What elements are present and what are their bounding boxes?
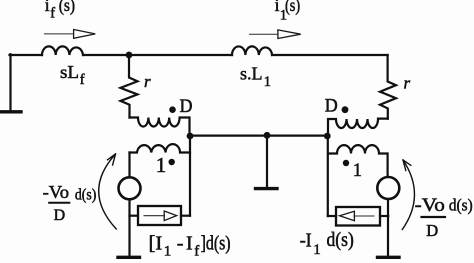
label -Vo/D d(s) (left) [43, 182, 97, 224]
label -I1 d(s) [300, 229, 354, 258]
svg-text:r: r [144, 72, 151, 91]
polarity dot D (left) [169, 106, 176, 113]
polarity dot D (right) [342, 106, 349, 113]
wire: right inner vertical (junction to controlled source) [327, 136, 329, 216]
controlled source box -I1 d(s) (right) [336, 207, 380, 226]
svg-text:1: 1 [264, 74, 271, 90]
current arrow i1(s) [250, 30, 301, 39]
wire: top rail, right segment [272, 54, 388, 56]
current arrow if(s) [44, 30, 95, 39]
rotation arrow (right) [402, 160, 414, 230]
wire: left vertical from top rail down to ground [9, 54, 11, 111]
wire: stub left box to inner vertical [181, 215, 190, 217]
wire: left outer vertical above circle [128, 153, 130, 178]
svg-text:r: r [404, 74, 411, 93]
svg-text:1: 1 [156, 153, 167, 177]
svg-text:1: 1 [313, 242, 321, 258]
svg-text:]d(s): ]d(s) [201, 233, 231, 255]
node: junction top rail / resistor r (left) [126, 52, 133, 59]
svg-text:D: D [325, 96, 338, 117]
svg-text:d(s): d(s) [75, 186, 96, 203]
svg-text:f: f [194, 244, 199, 260]
wire: stub circle line to left box [130, 215, 139, 217]
arrow inside right box [340, 211, 374, 220]
svg-text:[I: [I [149, 233, 163, 255]
source circle (left) -Vo/D d(s) [119, 177, 141, 199]
svg-text:i: i [45, 0, 50, 15]
svg-text:-Vo: -Vo [43, 182, 70, 202]
source circle (right) -Vo/D d(s) [377, 177, 399, 199]
svg-text:s.L: s.L [240, 64, 263, 84]
resistor r (left) [121, 55, 138, 118]
label s.L1 [240, 64, 271, 91]
svg-text:(s): (s) [285, 0, 300, 15]
node: junction right transformer / middle wire [324, 133, 331, 140]
wire: right outer vertical below circle to ground [387, 199, 389, 256]
label i1(s) [275, 0, 301, 24]
inductor L1 [232, 46, 272, 55]
wire: top rail, middle segment [83, 54, 232, 56]
wire: left inner vertical (junction to controlled source) [189, 136, 191, 216]
label D (right) [325, 96, 338, 117]
wire: stub right box to circle line [380, 215, 388, 217]
wire: left outer vertical below circle to ground [128, 199, 130, 256]
label 1 (right) [353, 161, 362, 181]
svg-text:-: - [177, 233, 184, 255]
label D (left) [180, 96, 193, 117]
svg-text:D: D [426, 221, 438, 240]
rotation arrow (left) [99, 154, 117, 229]
polarity dot 1 (left) [169, 159, 175, 165]
ground (bottom-left) [118, 256, 140, 259]
arrow inside left box [144, 211, 177, 221]
label r (left) [144, 72, 151, 91]
resistor r (right) [380, 55, 396, 119]
svg-text:f: f [50, 5, 55, 21]
polarity dot 1 (right) [343, 160, 349, 166]
transformer T2 secondary winding (right, dot 1) [328, 145, 388, 177]
ground (center) [256, 187, 278, 190]
wire: stub inner vertical to right box [328, 215, 336, 217]
svg-text:(s): (s) [59, 0, 76, 15]
transformer T2 primary winding (right, dot D) [328, 119, 388, 133]
svg-text:sL: sL [60, 62, 79, 82]
label 1 (left) [156, 153, 167, 177]
svg-text:D: D [54, 207, 66, 224]
ground (bottom-right) [378, 256, 400, 259]
svg-text:f: f [80, 72, 85, 88]
fraction bar (right) [422, 216, 446, 218]
controlled source box [I1-If]d(s) (left) [138, 206, 181, 225]
svg-text:d(s): d(s) [327, 229, 354, 251]
label [I1 - If]d(s) [149, 233, 231, 260]
ground (top-left) [0, 110, 21, 113]
wire: top rail, left segment [10, 54, 43, 56]
svg-text:1: 1 [164, 244, 172, 260]
transformer T1 secondary winding (left, dot 1) [130, 144, 191, 152]
label if(s) [45, 0, 75, 21]
svg-text:1: 1 [353, 161, 362, 181]
fraction bar (left) [49, 202, 69, 204]
svg-text:I: I [186, 233, 193, 255]
wire: middle horizontal [190, 135, 328, 137]
node: junction left transformer / middle wire [187, 133, 194, 140]
svg-text:-Vo: -Vo [415, 195, 445, 216]
transformer T1 primary winding (left, dot D) [130, 118, 190, 134]
node: junction middle wire / center ground [264, 132, 271, 139]
inductor Lf [42, 46, 83, 55]
label r (right) [404, 74, 411, 93]
label -Vo/D d(s) (right) [415, 195, 473, 240]
svg-text:D: D [180, 96, 193, 117]
wire: center ground stem [266, 136, 268, 188]
svg-text:-I: -I [300, 229, 312, 251]
svg-text:d(s): d(s) [449, 196, 473, 215]
label sLf [60, 62, 85, 88]
